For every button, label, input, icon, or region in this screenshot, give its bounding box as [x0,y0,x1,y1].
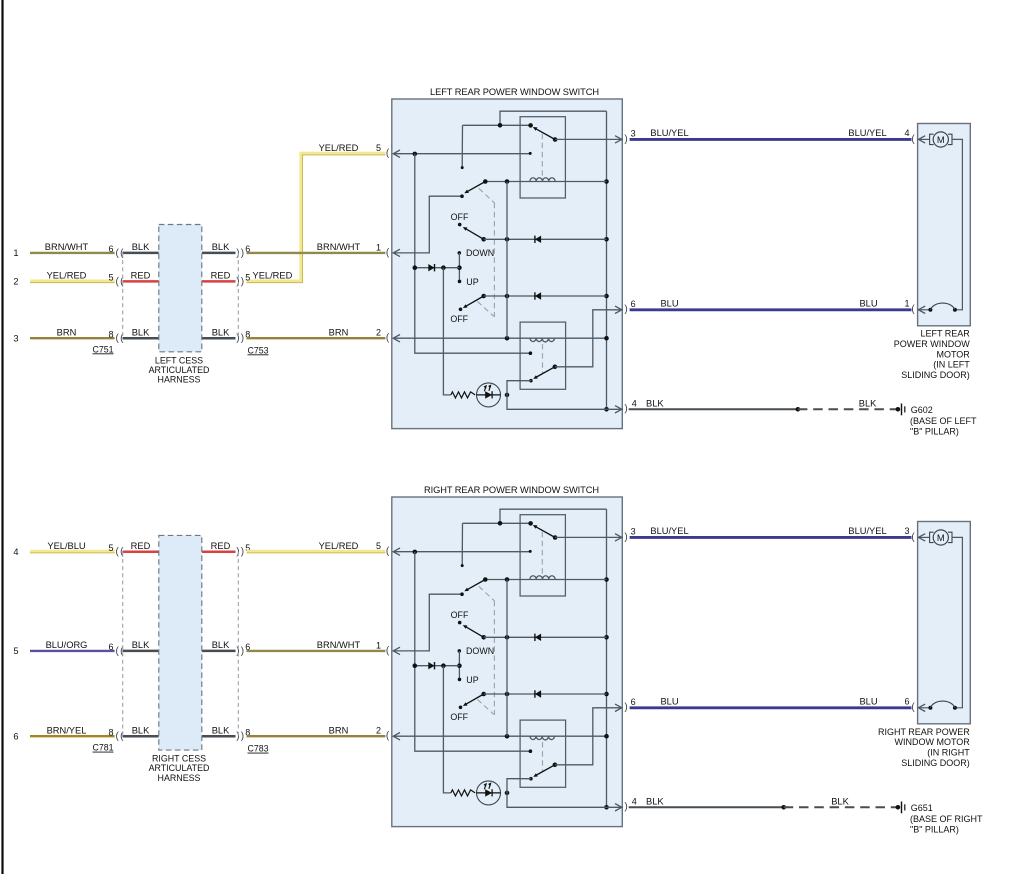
svg-text:RED: RED [211,541,231,551]
switch pin 3 [615,136,622,143]
svg-text:1: 1 [13,248,18,258]
illumination LED L1 [477,383,501,407]
svg-text:BLK: BLK [646,796,664,806]
svg-text:C783: C783 [247,744,268,754]
connector C781 dashed line [122,552,124,737]
diode D1 [535,634,541,641]
svg-text:): ) [241,646,244,657]
svg-text:5: 5 [376,541,381,551]
wire pin2 row to relay coil [393,337,606,339]
OFF lower contact [459,706,463,710]
svg-text:3: 3 [631,129,636,139]
svg-text:6: 6 [108,642,113,652]
svg-text:4: 4 [632,796,637,806]
wire YEL/RED bend to switch pin 5 [247,153,386,281]
svg-text:BLK: BLK [132,726,150,736]
relay K2 box [520,720,566,787]
OFF upper contact [458,621,462,625]
switch pin 4 [615,804,622,811]
switch arm C [481,294,486,299]
svg-text:2: 2 [376,328,381,338]
motor thermal protector arc [918,309,930,311]
svg-text:BLK: BLK [859,398,877,408]
wire BLK (inside RIGHT CESS ARTICULATED) [123,735,159,738]
svg-text:BLU/ORG: BLU/ORG [46,640,88,650]
svg-text:UP: UP [466,277,478,287]
relay K1 actuator dashed link [541,532,543,574]
wire pin1 row to UP/DOWN switch contact [393,594,462,651]
wire BLU to motor [630,308,912,311]
svg-text:BLK: BLK [212,328,230,338]
wire DOWN-UP link [458,253,460,282]
wire lamp feed vertical [443,268,451,395]
svg-text:BRN/YEL: BRN/YEL [47,726,87,736]
relay K2 actuator dashed link [542,344,544,374]
wire diode feed row [415,267,460,269]
relay K1 box [520,117,565,198]
svg-text:5: 5 [376,143,381,153]
vertical link between switch rows [506,580,508,737]
svg-text:YEL/BLU: YEL/BLU [47,541,85,551]
svg-text:BLK: BLK [132,242,150,252]
switch pin 3 [615,534,622,541]
connector C751 dashed line [122,253,124,338]
svg-text:4: 4 [904,128,909,138]
svg-text:6: 6 [13,732,18,742]
power window switch box S1 [392,99,623,429]
switch arm B [481,237,486,242]
DOWN contact [458,649,462,653]
wire pin1 row to UP/DOWN switch contact [393,196,462,253]
svg-text:BRN/WHT: BRN/WHT [45,242,89,252]
wire BLK (inside RIGHT CESS ARTICULATED) [123,650,159,653]
svg-text:BRN/WHT: BRN/WHT [317,242,361,252]
svg-text:): ) [241,248,244,259]
svg-text:POWER WINDOW: POWER WINDOW [894,339,970,349]
svg-text:LEFT REAR POWER WINDOW SWITCH: LEFT REAR POWER WINDOW SWITCH [430,87,599,97]
svg-text:BLK: BLK [132,640,150,650]
motor box right rear power window motor [918,522,971,724]
svg-text:8: 8 [108,728,113,738]
svg-text:BLU/YEL: BLU/YEL [650,526,688,536]
svg-text:1: 1 [376,242,381,252]
wire LED to pin4 net [505,393,510,398]
svg-text:RED: RED [211,271,231,281]
wire BRN/WHT to switch pin 1 [247,650,386,652]
svg-text:3: 3 [13,334,18,344]
svg-text:BRN: BRN [329,328,349,338]
svg-text:(BASE OF LEFT: (BASE OF LEFT [910,416,977,426]
svg-text:SLIDING DOOR): SLIDING DOOR) [901,758,970,768]
diode D2 [428,264,434,271]
vertical bus from pin5 row to lower relay [415,552,531,752]
wire pin5 row to relay contact [393,551,530,553]
switch pin 6 [615,306,622,313]
wire motor internal [952,139,962,309]
wire BRN to switch pin 2 [247,735,386,737]
relay K2 contact arm [553,763,558,768]
wire YEL/RED to switch pin 5 [247,550,386,553]
svg-text:OFF: OFF [451,610,469,620]
svg-text:): ) [241,276,244,287]
relay K2 actuator dashed link [542,742,544,772]
svg-text:BLK: BLK [212,242,230,252]
motor M1 symbol [918,138,929,140]
harness box LEFT CESS ARTICULATED [159,225,202,352]
wire UP diode row [484,295,607,297]
motor thermal protector arc [918,707,930,709]
diode D1 [535,236,541,243]
svg-text:6: 6 [631,697,636,707]
DOWN contact [458,251,462,255]
svg-text:BLK: BLK [831,796,849,806]
resistor R1 [451,392,475,398]
relay K1 contact arm [528,123,533,128]
svg-text:BLU: BLU [859,299,877,309]
vertical bus from pin5 row to lower relay [415,154,531,354]
svg-text:YEL/RED: YEL/RED [319,143,359,153]
svg-text:2: 2 [13,277,18,287]
svg-text:M: M [937,532,945,543]
svg-text:WINDOW MOTOR: WINDOW MOTOR [894,737,970,747]
svg-text:UP: UP [466,675,478,685]
svg-text:): ) [624,404,627,415]
svg-text:): ) [624,532,627,543]
svg-text:): ) [241,333,244,344]
wire relay K1 common to pin 3 [555,138,622,140]
svg-text:1: 1 [376,640,381,650]
svg-text:RIGHT REAR POWER WINDOW SWITCH: RIGHT REAR POWER WINDOW SWITCH [424,485,599,495]
svg-text:RIGHT REAR POWER: RIGHT REAR POWER [878,727,970,737]
svg-text:8: 8 [108,330,113,340]
svg-text:(BASE OF RIGHT: (BASE OF RIGHT [910,814,983,824]
relay K2 coil [530,338,555,342]
wire BLK ground lead [629,806,784,808]
motor pin arrow bottom [918,306,925,313]
svg-text:DOWN: DOWN [466,248,494,258]
svg-text:BLK: BLK [646,398,664,408]
svg-text:BLK: BLK [212,640,230,650]
connector C783 dashed line [237,552,239,737]
svg-text:(IN RIGHT: (IN RIGHT [927,748,970,758]
wire BRN to switch pin 2 [247,337,386,339]
wire RED (inside LEFT CESS ARTICULATED) [123,280,159,283]
wire BLK dashed ground lead [798,408,898,410]
switch pin 6 [615,704,622,711]
OFF upper contact [458,223,462,227]
svg-text:BLU: BLU [660,299,678,309]
svg-text:MOTOR: MOTOR [936,349,970,359]
svg-text:6: 6 [631,299,636,309]
wire DOWN-UP link [458,651,460,680]
relay K1 contact arm [528,521,533,526]
wire BLK (inside LEFT CESS ARTICULATED) [123,337,159,340]
svg-text:3: 3 [904,526,909,536]
svg-text:2: 2 [376,726,381,736]
wire UP diode row [484,693,607,695]
wire DOWN diode row [484,636,607,638]
UP contact [458,678,462,682]
vertical bus right side [606,509,608,807]
svg-text:BRN: BRN [329,726,349,736]
wire top loop [500,111,607,125]
svg-text:HARNESS: HARNESS [158,375,201,385]
svg-text:OFF: OFF [451,212,469,222]
wire relay1 NC contact [463,124,531,126]
wire diode feed row [415,665,460,667]
svg-text:(IN LEFT: (IN LEFT [933,360,970,370]
svg-text:6: 6 [108,244,113,254]
svg-text:ARTICULATED: ARTICULATED [149,763,210,773]
svg-text:"B" PILLAR): "B" PILLAR) [910,427,959,437]
svg-text:LEFT CESS: LEFT CESS [155,355,203,365]
svg-text:BLU/YEL: BLU/YEL [848,128,886,138]
ground G602 [896,407,901,412]
svg-text:5: 5 [245,273,250,283]
diode D3 [535,292,541,299]
stub contact [461,523,463,565]
svg-text:OFF: OFF [450,712,468,722]
svg-text:5: 5 [108,543,113,553]
svg-text:BLU: BLU [859,697,877,707]
wire relay K2 NO contact to pin 4 row [507,381,622,410]
svg-text:DOWN: DOWN [466,646,494,656]
motor pin arrow top [918,136,925,143]
switch arm A (window drive) [483,179,488,184]
relay K2 coil [530,736,555,740]
svg-text:C753: C753 [247,345,268,355]
wire BLK dashed ground lead [784,806,898,808]
svg-text:): ) [624,134,627,145]
motor box left rear power window motor [918,124,971,326]
svg-text:YEL/RED: YEL/RED [47,271,87,281]
wire BLU/YEL to motor [630,138,912,141]
relay K2 box [520,322,566,389]
svg-text:G602: G602 [911,405,933,415]
svg-text:G651: G651 [911,803,933,813]
svg-text:SLIDING DOOR): SLIDING DOOR) [901,370,970,380]
wire BLU/YEL to motor [630,536,912,539]
svg-text:): ) [241,547,244,558]
wire relay K2 common to pin 6 [555,708,622,765]
resistor R1 [451,790,475,796]
OFF lower contact [459,308,463,312]
relay K1 coil [485,579,606,581]
wire RED (inside RIGHT CESS ARTICULATED) [123,550,159,553]
svg-text:RIGHT CESS: RIGHT CESS [152,754,206,764]
wire motor internal [952,537,962,707]
relay K1 box [520,515,565,596]
svg-text:): ) [624,802,627,813]
switch A mechanical dashed link [479,586,495,601]
power window switch box S2 [392,497,623,827]
svg-text:BLK: BLK [212,726,230,736]
wire relay K2 common to pin 6 [555,310,622,367]
svg-text:): ) [624,304,627,315]
switch C mechanical dashed link [477,301,493,316]
svg-text:4: 4 [632,398,637,408]
harness box RIGHT CESS ARTICULATED [159,535,202,750]
wire BLK ground lead [629,408,798,410]
vertical bus right side [606,111,608,409]
motor pin arrow top [918,534,925,541]
svg-text:YEL/RED: YEL/RED [319,541,359,551]
svg-text:1: 1 [904,298,909,308]
svg-text:YEL/RED: YEL/RED [253,271,293,281]
relay K2 contact arm [553,365,558,370]
svg-text:BLK: BLK [132,328,150,338]
wire LED to pin4 net [505,791,510,796]
UP contact [458,280,462,284]
stub contact [461,125,463,167]
wire BRN/WHT to switch pin 1 [247,252,386,254]
wire pin2 row to relay coil [393,735,606,737]
svg-text:5: 5 [108,273,113,283]
svg-text:OFF: OFF [450,314,468,324]
wire DOWN diode row [484,238,607,240]
svg-text:6: 6 [904,696,909,706]
svg-text:BRN: BRN [57,328,77,338]
wire lamp feed vertical [443,666,451,793]
svg-text:HARNESS: HARNESS [158,773,201,783]
relay K1 coil [485,181,606,183]
switch C mechanical dashed link [477,699,493,714]
svg-text:BRN/WHT: BRN/WHT [317,640,361,650]
svg-text:C781: C781 [92,743,113,753]
svg-text:"B" PILLAR): "B" PILLAR) [910,825,959,835]
wire BLU to motor [630,706,912,709]
svg-text:RED: RED [131,541,151,551]
wire BLK (inside LEFT CESS ARTICULATED) [123,252,159,255]
svg-text:C751: C751 [92,344,113,354]
switch arm C [481,692,486,697]
svg-text:BLU: BLU [660,697,678,707]
vertical link between switch rows [506,182,508,339]
svg-text:RED: RED [131,271,151,281]
svg-text:): ) [241,731,244,742]
switch pin 4 [615,406,622,413]
wire relay K1 common to pin 3 [555,536,622,538]
svg-text:3: 3 [631,527,636,537]
svg-text:BLU/YEL: BLU/YEL [650,128,688,138]
relay K1 actuator dashed link [541,134,543,176]
switch arm A (window drive) [483,577,488,582]
wire relay K2 NO contact to pin 4 row [507,779,622,808]
diode D2 [428,662,434,669]
motor M1 symbol [918,536,929,538]
motor pin arrow bottom [918,704,925,711]
svg-text:5: 5 [13,646,18,656]
switch A mechanical dashed link [479,188,495,203]
svg-text:M: M [937,134,945,145]
diode D3 [535,690,541,697]
wire relay1 NC contact [463,522,531,524]
wire top loop [500,509,607,523]
page left border [1,0,3,874]
svg-text:BLU/YEL: BLU/YEL [848,526,886,536]
ground G651 [896,805,901,810]
svg-text:ARTICULATED: ARTICULATED [149,365,210,375]
switch arm B [481,635,486,640]
svg-text:LEFT REAR: LEFT REAR [920,329,970,339]
illumination LED L1 [477,781,501,805]
svg-text:4: 4 [13,547,18,557]
svg-text:): ) [624,702,627,713]
connector C753 dashed line [237,253,239,338]
wire pin5 row to relay contact [393,153,530,155]
